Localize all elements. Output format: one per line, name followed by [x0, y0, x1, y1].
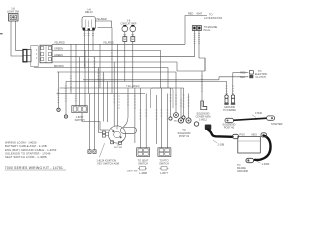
harness loop box [151, 88, 174, 108]
svg-text:1-8077 SW: 1-8077 SW [127, 171, 139, 173]
wire x98.5 to ignition terminal [99, 68, 103, 133]
connector J2 (4-pin block) [40, 45, 52, 63]
frame ground label [237, 164, 248, 173]
svg-text:BLK: BLK [174, 121, 178, 123]
svg-text:STARTER: STARTER [271, 123, 283, 126]
solenoid boot wire [201, 71, 203, 101]
harness wire y62 [52, 61, 177, 63]
svg-text:KEY SW: KEY SW [114, 147, 122, 149]
starter cable label 17046 [252, 112, 263, 117]
terminal on x58.5 [57, 108, 60, 111]
harness wire y72 [57, 71, 176, 73]
wire x161 into P3 [161, 88, 163, 148]
solenoid terminals label [178, 129, 191, 138]
wire x183.5 [183, 88, 185, 116]
solenoid ring terminal 2 [186, 94, 191, 124]
wire x100 [99, 44, 101, 88]
harness wire y93.5 [57, 93, 146, 95]
svg-text:RED: RED [240, 72, 245, 75]
scan mark left edge [0, 33, 3, 34]
harness box B [31, 46, 38, 67]
svg-text:SWITCH: SWITCH [138, 163, 148, 166]
relay leg connector marks [84, 34, 95, 36]
svg-text:1-4053: 1-4053 [262, 163, 270, 166]
solenoid lug [194, 122, 211, 130]
wire x160.5 green drop [160, 50, 162, 88]
harness wire y81.4 [66, 80, 227, 82]
svg-text:1-8077: 1-8077 [160, 172, 168, 175]
wire x140 into P2 [139, 88, 141, 148]
wire x156.5 [156, 95, 158, 144]
seat switch plug label and symbol [138, 160, 149, 176]
wire x79.5 into J3 [79, 57, 81, 106]
terminal on x66 [64, 115, 67, 118]
svg-text:RED: RED [188, 13, 193, 16]
svg-text:YEL/RED: YEL/RED [96, 18, 107, 21]
svg-text:KEY SWITCH ASM: KEY SWITCH ASM [98, 162, 120, 165]
pto switch plug P3 [158, 148, 171, 157]
electric clutch connector [249, 71, 253, 79]
bolts label [223, 106, 236, 112]
wire x128 to ignition [124, 88, 129, 127]
relay wire loop with label [95, 18, 112, 27]
circuit breaker CB2 [130, 25, 136, 32]
svg-text:RELAY: RELAY [85, 11, 93, 14]
svg-text:PLUG: PLUG [204, 29, 211, 32]
svg-text:POST #2: POST #2 [224, 127, 235, 130]
solenoid boot [201, 101, 207, 110]
terminal on x170 [169, 117, 172, 120]
battery cable label 2-10B [213, 140, 225, 147]
svg-text:1-8012: 1-8012 [199, 119, 207, 122]
svg-text:BLK: BLK [240, 76, 245, 79]
wire x85 into J3 [84, 50, 86, 105]
svg-text:SEAT SWITCH LOOM - 1-4088: SEAT SWITCH LOOM - 1-4088 [5, 155, 47, 159]
interlock connector J3 (3-pin) [72, 106, 87, 113]
engine plug wire 2 with color marks [198, 30, 205, 71]
NEG cable label 1-4053 [257, 162, 270, 166]
solenoid post label [223, 124, 236, 130]
rotated wire color marks col1 [57, 58, 95, 103]
wire x170 [170, 88, 172, 117]
harness wire y44.3 YEL/RED [52, 43, 185, 45]
relay K1 label [85, 8, 93, 14]
wire x103.5 down [103, 72, 105, 122]
wire x146 into P2 [145, 94, 147, 148]
wire x71 [70, 44, 72, 93]
interlock connector label [75, 116, 85, 122]
svg-text:YEL/RED: YEL/RED [103, 42, 114, 45]
wire from light switch pin2 [16, 21, 24, 50]
wire x94.5 to key terminal [94, 57, 96, 150]
wire x88.5 lower [88, 58, 90, 94]
alternator wire with labels [185, 13, 207, 45]
battery BT1 [238, 136, 260, 153]
wire x76 into J3 [75, 44, 77, 105]
key switch small label [114, 145, 122, 149]
ring terminal on x176 [174, 113, 179, 123]
parts list text block [5, 141, 57, 159]
wire x89.5 to key terminal [89, 94, 91, 150]
light switch SW1 label [7, 8, 20, 14]
solenoid boot label [196, 113, 211, 122]
svg-text:CLUTCH: CLUTCH [256, 76, 266, 79]
relay leg wires [84, 31, 86, 68]
frame bolt 1 [224, 95, 228, 105]
TO ENGINE PLUG label [204, 26, 218, 32]
starter cable 17046 (thin) [225, 116, 275, 123]
key terminal 1 [88, 150, 91, 154]
frame bolt wire 2 [232, 73, 234, 96]
ignition switch S1 [99, 126, 136, 157]
electric clutch wire RED [233, 72, 249, 75]
key terminal 2 [93, 150, 96, 154]
path to ignition from J3 [82, 113, 109, 130]
circuit breaker CB1 [122, 25, 128, 32]
battery POS lug [233, 134, 239, 138]
frame bolt wire 1 [225, 81, 227, 95]
CB2 terminal [131, 32, 135, 42]
CB1 terminal [123, 32, 127, 42]
svg-text:TO FRAME: TO FRAME [223, 109, 236, 112]
svg-text:POST #1: POST #1 [179, 135, 190, 138]
svg-text:1-4088: 1-4088 [139, 172, 147, 175]
engine plug wire 1 with color marks [194, 30, 196, 56]
connector J1 (mated pair) [23, 50, 31, 62]
svg-text:2-10B: 2-10B [218, 144, 225, 147]
light switch SW1 [9, 14, 19, 22]
rotated wire color marks col2 [97, 50, 203, 119]
CB1 wire down [124, 41, 126, 81]
ignition switch label [97, 159, 120, 165]
harness wire y56.7 [52, 56, 195, 58]
wire x117.7 [117, 44, 119, 126]
circuit breaker CB label [121, 20, 137, 26]
harness wire y67.5 [34, 67, 168, 69]
wire from light switch pin1 [11, 21, 23, 56]
svg-text:GROUND: GROUND [237, 170, 248, 173]
solenoid ring terminal 1 [178, 88, 183, 123]
wire x167 into P3 [166, 94, 168, 148]
wire x107.5 down [107, 81, 109, 122]
svg-text:CIRCUIT BKR: CIRCUIT BKR [121, 22, 137, 25]
pto switch plug label and symbol [159, 160, 169, 176]
TO ELECTRIC CLUTCH label [255, 70, 268, 79]
svg-text:NEG: NEG [252, 133, 257, 136]
wire x112 relay drop [111, 28, 113, 94]
battery NEG cable (thick) [246, 133, 271, 163]
wire x168 [167, 68, 169, 89]
relay K1 [82, 17, 96, 31]
terminal on x183.5 [182, 116, 185, 119]
battery cable from solenoid (thick) [208, 130, 233, 137]
engine plug P1 [192, 26, 201, 31]
svg-text:LIGHT SW: LIGHT SW [7, 11, 20, 14]
wire x134.9 [134, 88, 136, 143]
svg-text:ALTERNATOR: ALTERNATOR [204, 17, 222, 20]
corner wire node A [177, 58, 205, 71]
harness wire y88 bus [60, 87, 184, 89]
svg-text:POS: POS [240, 133, 246, 136]
TO ALTERNATOR label [204, 13, 222, 19]
svg-text:WHT: WHT [197, 13, 203, 16]
wire x66 down [65, 81, 67, 115]
wire x176 [175, 72, 177, 112]
svg-text:7000 SERIES WIRING KIT - 14751: 7000 SERIES WIRING KIT - 14751 [5, 166, 63, 170]
frame bolt 2 [231, 95, 235, 105]
footnote small label [127, 171, 139, 173]
seat switch plug P2 [137, 148, 150, 157]
electric clutch wire BLK [219, 76, 248, 80]
wire x58.5 down [58, 72, 60, 108]
CB2 wire down [132, 41, 134, 88]
harness wire y50.4 GREEN [52, 49, 161, 51]
svg-text:17046: 17046 [255, 112, 263, 115]
wire x114 to ignition [113, 62, 115, 126]
harness wire y79.8 [83, 79, 219, 81]
svg-text:YEL/RED: YEL/RED [126, 85, 140, 88]
svg-text:SWITCH: SWITCH [159, 163, 169, 166]
